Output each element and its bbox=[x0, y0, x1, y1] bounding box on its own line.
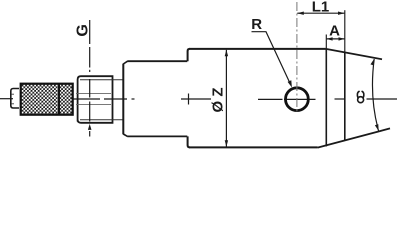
svg-text:R: R bbox=[251, 16, 262, 33]
main body bottom edge bbox=[189, 146, 318, 148]
svg-text:G: G bbox=[74, 24, 91, 36]
label alpha (rotated glyph drawn as path) bbox=[357, 91, 364, 102]
extension line right (A and L1) bbox=[344, 10, 346, 52]
nose band line bbox=[344, 53, 346, 141]
collar chamfer ticks bbox=[12, 93, 14, 95]
nose taper top edge bbox=[326, 49, 382, 59]
collar (small left flange) bbox=[11, 89, 19, 109]
left body left edge bbox=[122, 64, 124, 135]
arrow G up onto cylinder bottom edge bbox=[88, 124, 92, 130]
extension line A left bbox=[325, 35, 327, 49]
left body section with chamfered corners bbox=[127, 61, 187, 136]
wire: main horizontal centerline (part axis, dash-dot) bbox=[0, 98, 397, 101]
arrow OZ up bbox=[225, 50, 228, 57]
arrowhead R leader bbox=[288, 80, 292, 87]
arrow L1 right bbox=[338, 12, 345, 15]
arrow OZ down bbox=[225, 140, 228, 147]
joint line body/nose bbox=[325, 49, 327, 146]
svg-text:A: A bbox=[329, 23, 340, 40]
svg-text:Ø Z: Ø Z bbox=[210, 88, 227, 113]
dimension G centerline (dash-dot vertical) bbox=[89, 20, 91, 137]
arrow A left bbox=[326, 37, 332, 40]
step face at flange bbox=[188, 49, 190, 147]
dimension OZ line bbox=[225, 50, 227, 147]
thread minor line bottom bbox=[80, 119, 123, 121]
arrow arc top bbox=[370, 58, 375, 65]
angle dimension arc at nose bbox=[372, 59, 378, 131]
knurl divider line bbox=[58, 83, 60, 115]
chamfer bottom-left bbox=[123, 134, 127, 136]
main body top edge bbox=[189, 48, 326, 50]
thread detail line upper bbox=[76, 93, 111, 95]
nose taper bottom edge bbox=[318, 128, 390, 147]
hole R circle bbox=[286, 88, 309, 111]
dimension A line bbox=[327, 38, 345, 40]
chamfer top-left bbox=[123, 61, 127, 64]
arrow L1 left bbox=[297, 12, 304, 15]
arrow arc bottom bbox=[375, 124, 380, 131]
thread minor line top bbox=[80, 79, 123, 81]
thread detail line lower bbox=[76, 104, 111, 106]
hole vertical centerline / L1 extension bbox=[296, 2, 298, 114]
svg-text:L1: L1 bbox=[312, 0, 330, 15]
threaded mid cylinder bbox=[78, 76, 113, 123]
knurled knob body bbox=[21, 84, 73, 115]
leader R bbox=[252, 32, 291, 85]
node center mark at step bbox=[188, 94, 190, 105]
dimension L1 line bbox=[297, 12, 344, 14]
arrow A right bbox=[339, 37, 345, 40]
